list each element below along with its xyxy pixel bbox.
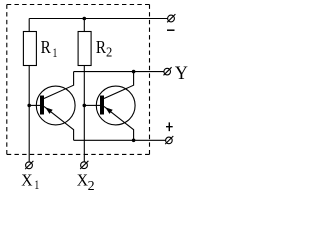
arrow Q1 emitter (PNP, pointing to base) [45, 107, 53, 114]
wire output Y line [74, 71, 164, 73]
terminal minus (top right) [168, 15, 175, 22]
svg-text:1: 1 [53, 47, 58, 60]
arrow Q2 emitter (PNP, pointing to base) [105, 107, 113, 114]
wire Q2 base lead [84, 104, 100, 106]
transistor Q1 base bar [40, 96, 44, 115]
wire Q1 base lead [29, 104, 40, 106]
node Q2 emitter rail junction dot [132, 139, 136, 143]
wire R2 bottom lead / input X2 line [83, 66, 85, 162]
transistor Q2 circle [96, 86, 135, 125]
svg-text:X: X [77, 170, 88, 190]
wire Q2 emitter [104, 106, 134, 140]
svg-text:2: 2 [88, 179, 95, 194]
resistor R1 [23, 32, 36, 66]
node R2-X2-base junction dot [83, 104, 87, 108]
plus sign label [166, 122, 173, 131]
transistor Q2 base bar [100, 96, 104, 115]
wire Q1 collector [44, 72, 74, 99]
terminal input X2 [81, 162, 88, 169]
wire emitter rail (positive supply rail) [74, 139, 166, 141]
transistor Q1 circle [36, 86, 75, 125]
node R2 top rail junction dot [83, 17, 87, 21]
resistor R2 [78, 32, 91, 66]
node R1-X1-base junction dot [27, 104, 31, 108]
svg-text:Y: Y [175, 63, 188, 85]
svg-text:2: 2 [106, 44, 112, 60]
wire Q1 emitter [44, 106, 74, 140]
svg-text:X: X [21, 170, 32, 190]
svg-text:R: R [41, 37, 52, 58]
dashed enclosure border [7, 4, 150, 6]
terminal plus (bottom right) [166, 137, 173, 144]
minus sign label [167, 29, 175, 31]
wire R2 top lead [83, 19, 85, 32]
svg-text:1: 1 [34, 179, 39, 192]
wire left vertical: R1 top lead [28, 19, 30, 32]
terminal input X1 [26, 162, 33, 169]
wire top rail (negative supply rail) [29, 18, 167, 20]
wire Q2 collector [104, 72, 134, 99]
node Q2 collector to Y junction dot [132, 70, 136, 74]
wire R1 bottom lead / input X1 line [28, 66, 30, 162]
terminal Y output [164, 68, 171, 75]
